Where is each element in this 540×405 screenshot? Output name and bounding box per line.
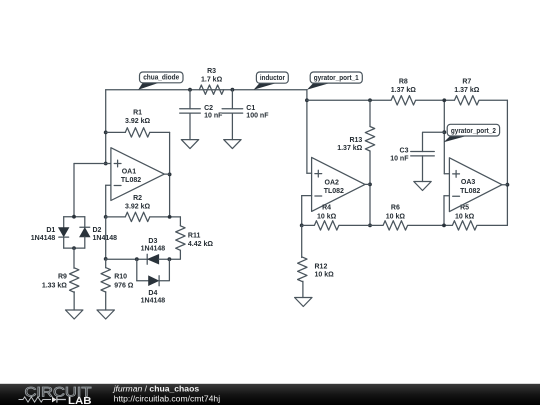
svg-text:1N4148: 1N4148 xyxy=(141,297,166,304)
node D3/D4 right xyxy=(168,257,172,261)
resistor R10 xyxy=(105,259,107,268)
svg-text:1.37 kΩ: 1.37 kΩ xyxy=(391,87,416,94)
node D1/D2 top xyxy=(72,215,76,219)
node top bus left xyxy=(305,98,309,102)
svg-text:R13: R13 xyxy=(349,137,362,144)
svg-text:976 Ω: 976 Ω xyxy=(114,282,134,289)
svg-text:D4: D4 xyxy=(148,290,157,297)
svg-text:chua_diode: chua_diode xyxy=(143,73,179,82)
svg-text:TL082: TL082 xyxy=(324,188,344,195)
resistor R9 xyxy=(73,248,75,268)
node D3/R10 xyxy=(104,257,108,261)
node R2 right / feedback xyxy=(168,215,172,219)
node bottom bus left xyxy=(300,224,304,228)
node bottom bus mid-right xyxy=(442,224,446,228)
svg-text:10 kΩ: 10 kΩ xyxy=(386,214,406,221)
svg-text:3.92 kΩ: 3.92 kΩ xyxy=(125,203,150,210)
svg-text:10 nF: 10 nF xyxy=(204,113,223,120)
svg-text:R6: R6 xyxy=(391,204,400,211)
ground C3 xyxy=(414,182,431,191)
wire OA1 + to D1/D2 xyxy=(74,163,106,165)
wire OA2 + stub xyxy=(307,172,312,174)
svg-text:1.37 kΩ: 1.37 kΩ xyxy=(337,145,362,152)
wire OA1 - down xyxy=(105,185,107,217)
svg-text:100 nF: 100 nF xyxy=(246,113,269,120)
node R13 top xyxy=(368,98,372,102)
svg-text:R9: R9 xyxy=(58,274,67,281)
svg-text:LAB: LAB xyxy=(68,396,92,405)
svg-text:R12: R12 xyxy=(315,264,328,271)
node OA2 output xyxy=(368,183,372,187)
resistor R6 xyxy=(383,220,408,231)
wire OA3 output stub xyxy=(502,184,507,186)
diode D4 1N4148 xyxy=(136,259,138,281)
ground R12 xyxy=(295,298,312,307)
svg-text:1.37 kΩ: 1.37 kΩ xyxy=(454,87,479,94)
svg-text:C2: C2 xyxy=(204,105,213,112)
svg-text:R4: R4 xyxy=(322,204,331,211)
net flag gyrator_port_1 xyxy=(307,83,331,90)
wire OA2 - stub xyxy=(302,195,312,197)
svg-text:R8: R8 xyxy=(399,79,408,86)
wire left vertical xyxy=(105,90,107,164)
svg-text:R7: R7 xyxy=(462,79,471,86)
svg-text:http://circuitlab.com/cmt74hj: http://circuitlab.com/cmt74hj xyxy=(114,393,221,403)
wire bottom bus xyxy=(302,224,508,226)
node R1 left junction xyxy=(104,131,108,135)
svg-text:jfurman / chua_chaos: jfurman / chua_chaos xyxy=(113,383,200,393)
svg-text:1N4148: 1N4148 xyxy=(93,235,118,242)
svg-text:1N4148: 1N4148 xyxy=(31,235,56,242)
node D3/D4 left xyxy=(135,257,139,261)
svg-text:TL082: TL082 xyxy=(460,188,480,195)
logo wire glyph xyxy=(19,397,52,402)
capacitor C3 10nF xyxy=(423,132,445,151)
svg-text:D3: D3 xyxy=(148,238,157,245)
op-amp U OA3 xyxy=(449,158,502,212)
svg-text:10 kΩ: 10 kΩ xyxy=(317,214,337,221)
op-amp U OA1 xyxy=(111,148,164,201)
resistor R11 xyxy=(179,217,181,226)
svg-text:1.33 kΩ: 1.33 kΩ xyxy=(42,282,67,289)
node C3 junction xyxy=(442,130,446,134)
wire OA3 - stub xyxy=(444,195,449,197)
ground C1 xyxy=(224,140,241,149)
wire OA2 + vertical xyxy=(306,90,308,174)
ground C2 xyxy=(181,140,198,149)
node bottom bus mid-left xyxy=(368,224,372,228)
node OA3 output xyxy=(506,183,510,187)
resistor R4 xyxy=(314,220,339,231)
ground R10 xyxy=(97,310,114,319)
svg-text:gyrator_port_1: gyrator_port_1 xyxy=(314,73,359,82)
wire top bus xyxy=(307,99,508,101)
resistor R8 xyxy=(391,95,416,106)
svg-text:R3: R3 xyxy=(207,68,216,75)
net flag chua_diode xyxy=(138,82,160,89)
svg-text:D1: D1 xyxy=(46,227,55,234)
wire OA3 - down xyxy=(443,196,445,226)
diode D1 1N4148 xyxy=(64,216,85,218)
svg-text:R11: R11 xyxy=(188,233,201,240)
node C2 top xyxy=(188,88,192,92)
svg-text:1N4148: 1N4148 xyxy=(141,246,166,253)
svg-text:inductor: inductor xyxy=(260,73,285,82)
net flag gyrator_port_2 xyxy=(444,136,469,143)
wire OA2 - down xyxy=(301,196,303,226)
diode D2 1N4148 xyxy=(84,217,86,228)
svg-text:R2: R2 xyxy=(133,195,142,202)
node OA1 + input junction xyxy=(104,162,108,166)
svg-text:10 kΩ: 10 kΩ xyxy=(455,214,475,221)
svg-text:TL082: TL082 xyxy=(121,177,141,184)
wire OA1 - stub xyxy=(106,184,111,186)
svg-text:OA1: OA1 xyxy=(122,168,137,175)
svg-text:R1: R1 xyxy=(133,109,142,116)
wire minus column down xyxy=(105,217,107,259)
resistor R5 xyxy=(452,220,477,231)
wire D1/D2 bottom bar xyxy=(64,247,85,249)
wire top node chua_diode/inductor xyxy=(106,89,307,91)
node OA1 output xyxy=(168,173,172,177)
diode D3 1N4148 xyxy=(106,258,148,260)
node C1 top xyxy=(231,88,235,92)
svg-text:10 kΩ: 10 kΩ xyxy=(315,272,335,279)
wire OA1 output stub xyxy=(164,173,169,175)
resistor R7 xyxy=(455,95,480,106)
wire OA1 feedback vertical xyxy=(169,132,171,217)
node D1/D2 bottom xyxy=(72,246,76,250)
svg-text:D2: D2 xyxy=(93,227,102,234)
ground R9 xyxy=(66,310,83,319)
node OA3 + top xyxy=(442,98,446,102)
svg-text:R10: R10 xyxy=(114,274,127,281)
svg-text:C3: C3 xyxy=(400,148,409,155)
svg-text:1.7 kΩ: 1.7 kΩ xyxy=(201,76,223,83)
wire right vertical xyxy=(506,100,508,225)
svg-text:4.42 kΩ: 4.42 kΩ xyxy=(188,241,213,248)
svg-text:gyrator_port_2: gyrator_port_2 xyxy=(451,126,496,135)
resistor R12 xyxy=(301,225,303,257)
resistor R1 xyxy=(106,131,126,133)
svg-text:C1: C1 xyxy=(246,105,255,112)
wire OA3 + stub xyxy=(444,173,449,175)
net flag inductor xyxy=(254,83,278,90)
wire OA3 + vertical xyxy=(443,100,445,174)
wire OA1 + stub xyxy=(106,163,111,165)
resistor R3 xyxy=(199,85,224,94)
svg-text:10 nF: 10 nF xyxy=(390,155,409,162)
op-amp U OA2 xyxy=(312,157,365,211)
svg-text:3.92 kΩ: 3.92 kΩ xyxy=(125,118,150,125)
svg-text:OA2: OA2 xyxy=(325,179,340,186)
node R2 left xyxy=(104,215,108,219)
wire OA2 output stub xyxy=(365,183,370,185)
svg-text:OA3: OA3 xyxy=(461,179,476,186)
